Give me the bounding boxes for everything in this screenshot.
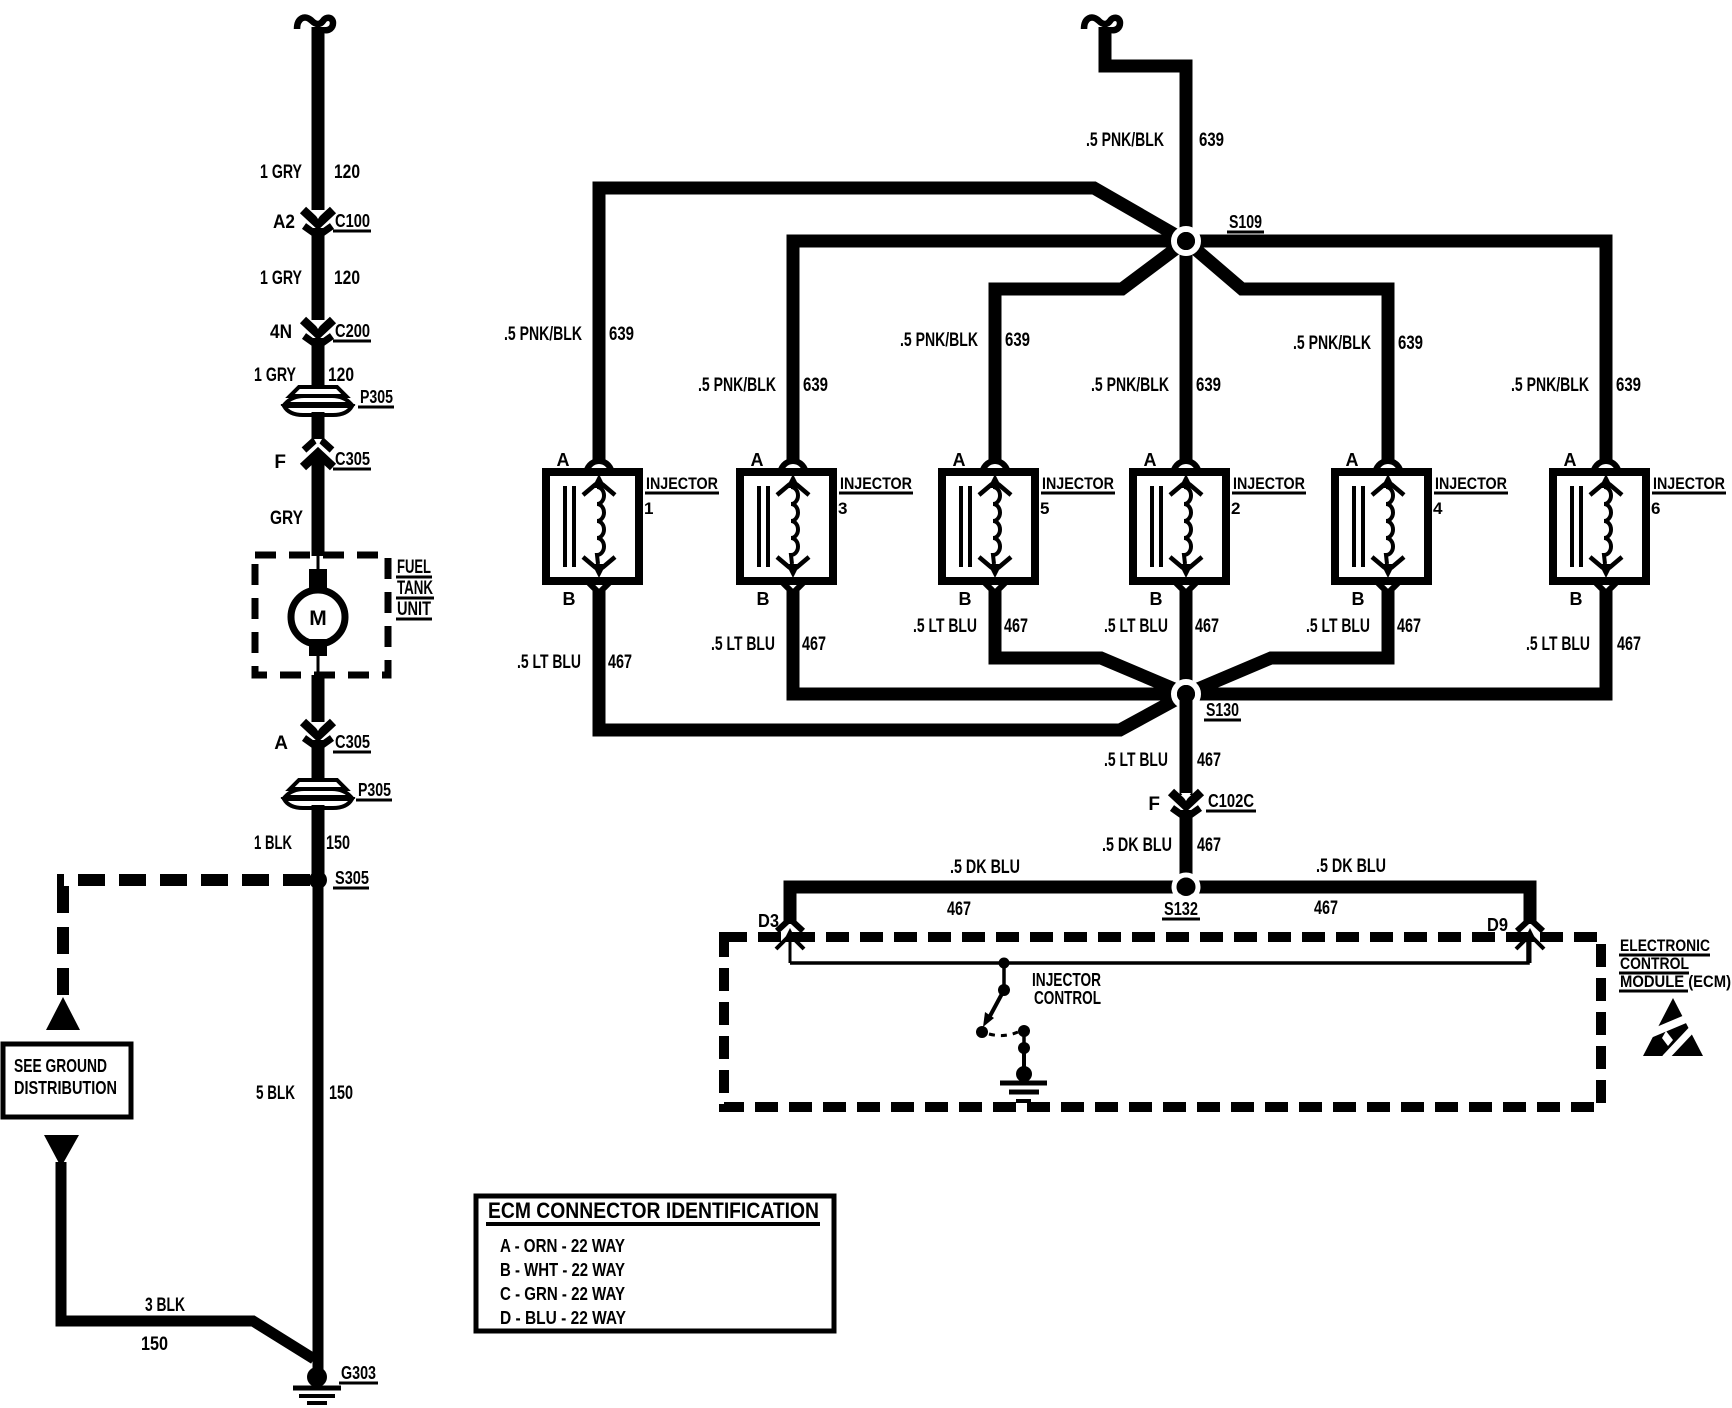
svg-text:UNIT: UNIT (397, 599, 431, 620)
svg-text:3: 3 (838, 499, 847, 518)
svg-text:M: M (309, 607, 327, 630)
injector 6 pin B bullet connector (1593, 580, 1619, 593)
svg-text:A: A (953, 450, 966, 470)
injector 1 pin B bullet connector (586, 580, 612, 593)
wire fuel tank unit to C305 (pin A) (312, 675, 325, 722)
svg-text:INJECTOR: INJECTOR (1653, 474, 1725, 493)
injector 3 pin B arrow (786, 564, 800, 578)
svg-text:A: A (274, 733, 288, 754)
svg-text:.5 DK BLU: .5 DK BLU (1102, 835, 1172, 856)
svg-text:1 GRY: 1 GRY (254, 365, 296, 386)
svg-text:F: F (1148, 794, 1160, 815)
dashed wire S305 to ground distribution (57, 874, 310, 886)
svg-text:A: A (1564, 450, 1577, 470)
wire GRY feed from top to C100 (312, 27, 325, 210)
svg-text:120: 120 (334, 268, 360, 289)
svg-text:A: A (751, 450, 764, 470)
svg-text:.5 PNK/BLK: .5 PNK/BLK (1511, 375, 1589, 396)
injector 5 pin A bullet connector (982, 461, 1008, 475)
wire S109 branch to injector 4 (1186, 241, 1388, 462)
svg-text:B - WHT - 22 WAY: B - WHT - 22 WAY (500, 1260, 625, 1280)
injector 2 core bars (1150, 486, 1154, 567)
wire S132 bus to D9 (1186, 887, 1530, 924)
injector 1 box (546, 472, 639, 581)
injector 6 core bars (1570, 486, 1574, 567)
svg-text:A2: A2 (273, 212, 295, 233)
injector 3 solenoid coil (791, 487, 798, 564)
svg-text:ELECTRONIC: ELECTRONIC (1620, 936, 1710, 955)
injector 1 solenoid coil (597, 487, 604, 564)
injector 2 pin A arrow (1179, 474, 1193, 488)
wire break symbol (top of PNK/BLK feed) (1084, 18, 1120, 31)
wire S109 branch to injector 5 (995, 241, 1186, 462)
grommet P305 (upper) (290, 387, 346, 396)
svg-text:120: 120 (334, 162, 360, 183)
connector C200 (303, 320, 333, 334)
svg-text:D - BLU - 22 WAY: D - BLU - 22 WAY (500, 1308, 626, 1328)
svg-text:INJECTOR: INJECTOR (1042, 474, 1114, 493)
svg-text:639: 639 (1005, 330, 1030, 351)
svg-text:5: 5 (1040, 499, 1049, 518)
svg-text:639: 639 (1196, 375, 1221, 396)
svg-text:.5 LT BLU: .5 LT BLU (1104, 750, 1168, 771)
svg-text:2: 2 (1231, 499, 1240, 518)
svg-text:DISTRIBUTION: DISTRIBUTION (14, 1078, 117, 1098)
injector 6 pin A bullet connector (1593, 461, 1619, 475)
svg-text:S109: S109 (1229, 212, 1262, 232)
fuel pump motor M (fuel tank unit) (317, 556, 320, 570)
injector 4 pin A bullet connector (1375, 461, 1401, 475)
svg-text:467: 467 (1197, 835, 1221, 856)
wire injector 5 to S130 (995, 591, 1186, 694)
svg-text:.5 PNK/BLK: .5 PNK/BLK (698, 375, 776, 396)
node junction on internal wire (999, 958, 1010, 969)
svg-text:639: 639 (1398, 333, 1423, 354)
grommet P305 (lower) (290, 780, 346, 789)
ground (injector control) (1016, 1066, 1032, 1082)
wire P305 to C305 (312, 412, 325, 441)
injector 4 core bars (1352, 486, 1356, 567)
injector 4 solenoid coil (1386, 487, 1393, 564)
wire 1 BLK 150 to S305 (312, 805, 325, 880)
svg-text:A: A (557, 450, 570, 470)
connector D9 (ECM pin) (1517, 919, 1543, 931)
svg-text:INJECTOR: INJECTOR (1233, 474, 1305, 493)
svg-text:1 BLK: 1 BLK (254, 833, 292, 854)
wire internal ECM D3 to D9 (790, 942, 1528, 963)
wire .5 PNK/BLK feed to S109 (1105, 27, 1186, 235)
injector 3 pin A bullet connector (780, 461, 806, 475)
injector 6 pin A arrow (1599, 474, 1613, 488)
svg-text:120: 120 (328, 365, 354, 386)
svg-text:P305: P305 (360, 387, 393, 407)
svg-text:A: A (1346, 450, 1359, 470)
svg-text:.5 PNK/BLK: .5 PNK/BLK (504, 324, 582, 345)
svg-text:150: 150 (141, 1334, 168, 1355)
wire S132 bus to D3 (790, 887, 1186, 924)
ground G303 (307, 1367, 327, 1387)
svg-text:4: 4 (1433, 499, 1443, 518)
injector 5 core bars (959, 486, 963, 567)
wire S109 branch to injectors 3 and 6 (793, 241, 1606, 462)
wire S130 to C102C (1180, 694, 1193, 795)
svg-text:3 BLK: 3 BLK (145, 1295, 185, 1316)
svg-text:S305: S305 (335, 868, 369, 888)
wire S109 branch to injector 2 (1180, 241, 1193, 462)
svg-text:B: B (1570, 589, 1583, 609)
splice S132 (1174, 875, 1198, 899)
injector 1 pin B arrow (592, 564, 606, 578)
injector 2 pin B arrow (1179, 564, 1193, 578)
injector 2 pin A bullet connector (1173, 461, 1199, 475)
wire 3 BLK 150 to G303 (61, 1162, 314, 1359)
svg-text:INJECTOR: INJECTOR (1032, 970, 1101, 990)
wire C200 to P305 (312, 338, 325, 390)
svg-text:6: 6 (1651, 499, 1660, 518)
wire injector 3 to S130 (793, 591, 1186, 694)
svg-text:.5 PNK/BLK: .5 PNK/BLK (900, 330, 978, 351)
injector 3 core bars (757, 486, 761, 567)
injector 5 box (942, 472, 1035, 581)
svg-text:639: 639 (1616, 375, 1641, 396)
svg-text:C100: C100 (335, 211, 370, 231)
svg-text:B: B (1150, 589, 1163, 609)
svg-text:B: B (757, 589, 770, 609)
wire injector 4 to S130 (1186, 591, 1388, 694)
svg-text:639: 639 (803, 375, 828, 396)
svg-text:467: 467 (1397, 616, 1421, 637)
injector 1 pin A bullet connector (586, 461, 612, 475)
splice S130 (1174, 682, 1198, 706)
wire S109 branch to injector 1 (599, 188, 1186, 462)
svg-text:D3: D3 (758, 911, 779, 931)
svg-text:INJECTOR: INJECTOR (1435, 474, 1507, 493)
svg-text:467: 467 (1617, 634, 1641, 655)
injector 2 pin B bullet connector (1173, 580, 1199, 593)
svg-text:.5 LT BLU: .5 LT BLU (913, 616, 977, 637)
svg-text:639: 639 (609, 324, 634, 345)
wire C100 to C200 (312, 228, 325, 320)
injector 3 pin A arrow (786, 474, 800, 488)
wire injector 2 to S130 (1180, 591, 1193, 694)
svg-text:.5 LT BLU: .5 LT BLU (1526, 634, 1590, 655)
injector control switch (1002, 963, 1006, 986)
injector 6 box (1553, 472, 1646, 581)
svg-text:B: B (1352, 589, 1365, 609)
ECM dashed box (724, 937, 1601, 1107)
svg-text:C305: C305 (335, 732, 370, 752)
injector 3 pin B bullet connector (780, 580, 806, 593)
svg-text:1 GRY: 1 GRY (260, 162, 302, 183)
svg-text:C102C: C102C (1208, 791, 1254, 811)
injector 3 box (740, 472, 833, 581)
svg-text:1 GRY: 1 GRY (260, 268, 302, 289)
wire C102C to S132 (1180, 810, 1193, 887)
svg-text:4N: 4N (270, 322, 292, 343)
svg-text:P305: P305 (358, 780, 391, 800)
connector C100 (303, 210, 333, 224)
svg-text:467: 467 (1195, 616, 1219, 637)
injector 1 pin A arrow (592, 474, 606, 488)
svg-text:INJECTOR: INJECTOR (646, 474, 718, 493)
connector D3 (ECM pin) (777, 919, 803, 931)
wire GRY C305 to fuel tank unit (312, 457, 325, 556)
svg-text:1: 1 (644, 499, 653, 518)
injector 5 pin B bullet connector (982, 580, 1008, 593)
svg-text:MODULE (ECM): MODULE (ECM) (1620, 972, 1731, 991)
connector C102C (1171, 792, 1201, 806)
svg-text:.5 LT BLU: .5 LT BLU (1104, 616, 1168, 637)
injector 2 solenoid coil (1184, 487, 1191, 564)
injector 1 core bars (563, 486, 567, 567)
svg-text:.5 DK BLU: .5 DK BLU (1316, 856, 1386, 877)
connector C305 (pin A, lower) (303, 722, 333, 736)
svg-text:TANK: TANK (397, 578, 433, 599)
injector 5 pin A arrow (988, 474, 1002, 488)
svg-text:G303: G303 (341, 1363, 376, 1383)
splice S305 (309, 871, 327, 889)
svg-text:A - ORN - 22 WAY: A - ORN - 22 WAY (500, 1236, 625, 1256)
svg-text:.5 DK BLU: .5 DK BLU (950, 857, 1020, 878)
off-page connector triangle (upper) (46, 997, 80, 1030)
svg-text:467: 467 (1314, 898, 1338, 919)
svg-text:F: F (274, 452, 286, 473)
svg-text:.5 LT BLU: .5 LT BLU (1306, 616, 1370, 637)
wire 5 BLK 150 S305 to G303 (313, 880, 324, 1374)
wire injector 6 to S130 (1186, 591, 1606, 694)
svg-text:467: 467 (1197, 750, 1221, 771)
svg-text:INJECTOR: INJECTOR (840, 474, 912, 493)
svg-text:.5 PNK/BLK: .5 PNK/BLK (1293, 333, 1371, 354)
svg-text:.5 LT BLU: .5 LT BLU (711, 634, 775, 655)
wire injector 1 to S130 (599, 591, 1186, 730)
svg-text:.5 PNK/BLK: .5 PNK/BLK (1091, 375, 1169, 396)
svg-text:467: 467 (1004, 616, 1028, 637)
injector 2 box (1133, 472, 1226, 581)
injector 6 solenoid coil (1604, 487, 1611, 564)
injector 5 pin B arrow (988, 564, 1002, 578)
svg-text:C305: C305 (335, 449, 370, 469)
SEE GROUND DISTRIBUTION box (3, 1044, 131, 1117)
svg-text:467: 467 (608, 652, 632, 673)
svg-text:D9: D9 (1487, 915, 1508, 935)
ECM CONNECTOR IDENTIFICATION box (476, 1196, 834, 1331)
svg-text:S130: S130 (1206, 700, 1239, 720)
connector C305 (pin F, into fuel tank unit) (304, 440, 332, 450)
wire C305 to P305 (lower) (312, 740, 325, 782)
injector 4 pin A arrow (1381, 474, 1395, 488)
svg-text:GRY: GRY (270, 508, 303, 529)
svg-text:639: 639 (1199, 130, 1224, 151)
wire break symbol (top of GRY feed) (297, 18, 333, 31)
svg-text:FUEL: FUEL (397, 557, 431, 578)
injector 4 box (1335, 472, 1428, 581)
svg-text:CONTROL: CONTROL (1034, 988, 1101, 1008)
svg-text:5 BLK: 5 BLK (256, 1083, 295, 1104)
injector 4 pin B arrow (1381, 564, 1395, 578)
svg-text:CONTROL: CONTROL (1620, 954, 1689, 973)
svg-text:B: B (563, 589, 576, 609)
splice S109 (1174, 229, 1198, 253)
injector 4 pin B bullet connector (1375, 580, 1401, 593)
off-page connector triangle (lower) (44, 1135, 79, 1167)
svg-text:S132: S132 (1164, 899, 1198, 919)
svg-text:C - GRN - 22 WAY: C - GRN - 22 WAY (500, 1284, 625, 1304)
svg-text:C200: C200 (335, 321, 370, 341)
svg-text:ECM CONNECTOR IDENTIFICATION: ECM CONNECTOR IDENTIFICATION (488, 1198, 819, 1223)
svg-text:150: 150 (329, 1083, 353, 1104)
injector 6 pin B arrow (1599, 564, 1613, 578)
svg-text:B: B (959, 589, 972, 609)
svg-text:.5 LT BLU: .5 LT BLU (517, 652, 581, 673)
svg-text:A: A (1144, 450, 1157, 470)
svg-text:.5 PNK/BLK: .5 PNK/BLK (1086, 130, 1164, 151)
injector 5 solenoid coil (993, 487, 1000, 564)
svg-text:150: 150 (326, 833, 350, 854)
svg-text:467: 467 (802, 634, 826, 655)
fuel tank unit dashed box (255, 555, 388, 675)
svg-text:SEE GROUND: SEE GROUND (14, 1056, 107, 1076)
svg-text:467: 467 (947, 899, 971, 920)
ESD sensitivity symbol (1643, 998, 1703, 1056)
